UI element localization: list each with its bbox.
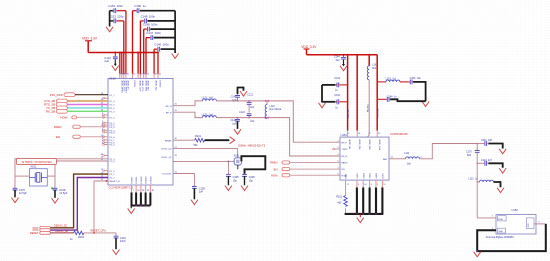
svg-text:Non Monta: Non Monta xyxy=(269,108,281,111)
ground (U100 DGND) xyxy=(130,206,132,209)
svg-text:C112 1p8: C112 1p8 xyxy=(481,139,493,142)
junction dot green xyxy=(51,187,53,189)
capacitor C149 100n xyxy=(140,20,144,22)
svg-text:P1_3: P1_3 xyxy=(110,111,116,113)
wire RESET_N vertical xyxy=(94,181,108,233)
junction dots U151 ground bus xyxy=(356,213,358,215)
svg-text:DGND3: DGND3 xyxy=(146,176,148,184)
ground (C143) xyxy=(112,66,119,71)
svg-text:RF_N: RF_N xyxy=(342,156,348,158)
svg-text:C149 100n: C149 100n xyxy=(141,14,156,18)
junction dot RESET xyxy=(93,232,94,233)
ground (C112) xyxy=(499,149,506,154)
svg-text:48: 48 xyxy=(152,190,154,192)
wire black bus C161/C162 xyxy=(321,85,323,103)
wire L111 up to antenna row xyxy=(420,144,478,159)
svg-text:9n1: 9n1 xyxy=(372,67,377,70)
capacitor C140 1p8 xyxy=(237,100,238,101)
capacitor C170 6p8 series xyxy=(476,144,478,151)
ground (C113) xyxy=(499,168,506,173)
capacitor C105 xyxy=(227,161,229,174)
svg-text:2u2: 2u2 xyxy=(104,59,109,63)
capacitor C113 2p7 xyxy=(477,162,484,164)
wire PIO2 purple xyxy=(50,178,108,231)
svg-text:RESET: RESET xyxy=(30,231,39,235)
capacitor C110 10nF xyxy=(115,233,117,236)
antenna U152 Line pin box xyxy=(498,216,507,221)
capacitor C109 1uF xyxy=(194,186,195,187)
svg-text:15p: 15p xyxy=(233,179,238,182)
wire C140 ground loop xyxy=(238,88,244,95)
capacitor C164 1n xyxy=(377,98,386,100)
capacitor C143 2u2 xyxy=(114,53,116,58)
svg-text:GND2: GND2 xyxy=(363,172,365,178)
resistor R102 1k xyxy=(74,231,85,235)
IC U151 CC2591 body xyxy=(340,137,389,180)
wire DGND comb xyxy=(131,185,133,193)
junction dot antenna top corner xyxy=(477,143,478,144)
svg-text:10p: 10p xyxy=(250,120,255,123)
black polarity arrow C144 xyxy=(343,60,345,65)
svg-text:C151 100n: C151 100n xyxy=(108,4,123,8)
svg-text:C107: C107 xyxy=(19,188,26,192)
capacitor C150 1u xyxy=(133,10,138,12)
svg-text:R102: R102 xyxy=(78,236,85,239)
svg-text:DGND4: DGND4 xyxy=(151,176,153,184)
svg-text:GND4: GND4 xyxy=(376,172,378,178)
svg-text:AVDD_PA1: AVDD_PA1 xyxy=(358,140,361,151)
inductor L111 1n6 xyxy=(406,157,420,159)
ground (C140) xyxy=(240,91,247,96)
wire RESET_CPU xyxy=(84,232,116,234)
wire AVDD vertical 1 xyxy=(119,53,121,74)
junction dot C164 branch xyxy=(377,99,378,100)
wire AVDD vertical 7 xyxy=(139,21,141,74)
wire PAEN xyxy=(290,162,340,164)
svg-text:CC2591RGVR: CC2591RGVR xyxy=(390,132,408,136)
wire RESET xyxy=(50,232,73,234)
wire crystal ground loop black xyxy=(241,156,265,174)
svg-text:C147 100n: C147 100n xyxy=(146,31,161,35)
svg-text:DCOUPL: DCOUPL xyxy=(162,174,172,176)
svg-text:10p: 10p xyxy=(250,106,255,109)
svg-text:DEBUG_DC: DEBUG_DC xyxy=(54,224,68,227)
wire AVDD vertical 3 xyxy=(123,21,125,74)
wire RF_P rail cont xyxy=(216,118,340,156)
svg-text:DGND2: DGND2 xyxy=(141,176,143,184)
svg-text:XOSC_Q1: XOSC_Q1 xyxy=(161,157,172,159)
svg-text:L111: L111 xyxy=(404,152,410,155)
capacitor C161 1n xyxy=(347,101,348,102)
svg-text:R151: R151 xyxy=(336,195,342,198)
svg-text:10nF: 10nF xyxy=(120,239,126,243)
svg-text:P2_0: P2_0 xyxy=(110,145,116,147)
wire AVDD_SW vertical xyxy=(347,55,349,131)
capacitor C106 xyxy=(242,175,247,177)
svg-text:AVDD_VCO: AVDD_VCO xyxy=(141,81,144,92)
wire TX_2B cyan xyxy=(67,107,108,109)
svg-text:PAEN: PAEN xyxy=(54,125,62,129)
wire VDD riser 2 xyxy=(306,49,308,55)
resistor R151 4k3 xyxy=(345,180,347,195)
svg-text:C108: C108 xyxy=(59,188,66,192)
wire DCOUPL xyxy=(173,174,194,187)
junction dots antenna node xyxy=(477,163,478,164)
wire antenna node to Line pin xyxy=(477,217,496,219)
wire U152 ground loop xyxy=(477,224,546,251)
svg-text:P1_0: P1_0 xyxy=(110,118,116,120)
svg-text:AVDD_SW: AVDD_SW xyxy=(155,81,158,91)
wire XOSC32 upper xyxy=(15,159,108,176)
capacitor C122 10p xyxy=(247,114,252,116)
ground (C105) xyxy=(225,186,232,191)
svg-text:AVDD_LNA: AVDD_LNA xyxy=(378,140,381,151)
antenna U152 GND pin box right xyxy=(527,218,535,229)
svg-text:6p8: 6p8 xyxy=(467,154,472,157)
svg-text:C110: C110 xyxy=(120,236,127,240)
wire AVDD vertical 8 xyxy=(143,29,145,74)
wire RBIAS xyxy=(173,139,195,141)
svg-text:28: 28 xyxy=(142,190,144,192)
svg-text:EN: EN xyxy=(274,167,278,171)
ground (C110) xyxy=(113,250,120,255)
svg-text:RBIAS: RBIAS xyxy=(165,139,172,142)
ground (C161/C162) xyxy=(319,103,326,108)
svg-text:P1_4: P1_4 xyxy=(110,101,116,103)
antenna U152 GND pin box left xyxy=(498,228,506,233)
inductor L131 1n6 xyxy=(202,99,216,101)
wire RF_N rail xyxy=(173,101,202,106)
ground (C108) xyxy=(52,198,59,203)
svg-text:12.5pF: 12.5pF xyxy=(19,191,27,195)
capacitor C163 10p xyxy=(400,81,410,83)
svg-text:P1_2: P1_2 xyxy=(110,171,116,173)
wire crystal left lead xyxy=(15,175,29,177)
svg-text:P1_6: P1_6 xyxy=(110,108,116,110)
svg-text:L132 1n6: L132 1n6 xyxy=(202,113,214,116)
ground (C163) xyxy=(422,102,429,107)
svg-text:VDD_3.3V: VDD_3.3V xyxy=(82,37,98,41)
svg-text:RESET_CPU: RESET_CPU xyxy=(91,229,107,233)
svg-text:X151: X151 xyxy=(234,154,240,157)
svg-text:EN: EN xyxy=(342,169,345,171)
svg-text:AVDD_IF1: AVDD_IF1 xyxy=(127,81,130,91)
junction dots on VDD rail xyxy=(119,52,121,54)
capacitor C107 12.5pF xyxy=(14,176,16,188)
wire EN left xyxy=(80,136,108,138)
svg-text:P0_6: P0_6 xyxy=(110,137,116,139)
svg-text:C148 100n: C148 100n xyxy=(143,23,158,27)
svg-text:C146 100n: C146 100n xyxy=(154,43,169,47)
svg-text:U100: U100 xyxy=(109,76,116,80)
wire XOSC_Q1 xyxy=(173,160,234,162)
wire AVDD vertical 6 xyxy=(137,53,139,74)
inductor L122 non mount xyxy=(265,100,269,118)
svg-text:C164 1n: C164 1n xyxy=(387,96,397,99)
svg-text:C109: C109 xyxy=(199,186,206,190)
wire black bus right of cap bank xyxy=(174,11,176,53)
svg-text:12.5pF: 12.5pF xyxy=(59,191,67,195)
capacitor C112 1p8 xyxy=(477,143,484,145)
wire XOSC32 lower xyxy=(55,161,108,176)
capacitor C121 10p xyxy=(248,100,249,101)
svg-text:38: 38 xyxy=(147,190,149,192)
wire HOW xyxy=(77,116,108,118)
wire crystal bottom lead xyxy=(237,165,239,169)
svg-text:P0_5: P0_5 xyxy=(110,132,116,134)
wire RX_2B green xyxy=(67,110,108,112)
capacitor C151 100n xyxy=(110,10,114,12)
svg-text:GND: GND xyxy=(498,231,503,233)
wire AVDD vertical 5 xyxy=(132,11,134,74)
svg-text:GND3: GND3 xyxy=(370,172,372,178)
wire AVDD vertical 2 xyxy=(121,53,123,74)
capacitor C148 100n xyxy=(144,28,148,30)
wire EN xyxy=(290,168,340,170)
capacitor C142 1p8 xyxy=(237,117,238,118)
svg-text:C162: C162 xyxy=(334,77,340,80)
svg-text:AVDD_PA2: AVDD_PA2 xyxy=(368,140,371,151)
svg-text:P0_3: P0_3 xyxy=(110,127,116,129)
svg-text:4k3: 4k3 xyxy=(338,201,343,204)
svg-text:ANT: ANT xyxy=(383,158,388,161)
svg-text:32.768kHz / TFX02P2047RM: 32.768kHz / TFX02P2047RM xyxy=(22,162,52,164)
wire RTS_2B magenta xyxy=(67,104,108,106)
svg-text:HOW: HOW xyxy=(60,116,67,120)
inductor L161 1n1 xyxy=(386,80,400,82)
svg-text:P2_1: P2_1 xyxy=(110,174,116,176)
svg-text:7: 7 xyxy=(133,190,134,192)
wire RF_P rail xyxy=(173,112,202,117)
svg-text:U151: U151 xyxy=(341,133,348,137)
svg-text:C163 10p: C163 10p xyxy=(410,77,422,80)
svg-text:AVDD_RF1: AVDD_RF1 xyxy=(147,81,150,92)
svg-text:RESET_N: RESET_N xyxy=(110,181,121,183)
svg-text:DVDD3: DVDD3 xyxy=(132,176,134,184)
wire PAEN left xyxy=(80,126,108,128)
wire XOSC_Q2 xyxy=(173,149,238,158)
wire C163 to ground xyxy=(413,82,426,101)
svg-text:R101: R101 xyxy=(195,135,202,138)
svg-text:C122: C122 xyxy=(239,111,245,114)
ground (RBIAS, pointing right) xyxy=(230,137,235,144)
wire HGM xyxy=(290,174,340,176)
svg-text:U152: U152 xyxy=(512,208,519,212)
svg-text:DGND1: DGND1 xyxy=(136,176,138,184)
svg-text:L112 1n: L112 1n xyxy=(469,178,479,181)
wire to L161 xyxy=(377,81,386,83)
wire CTS_2B orange xyxy=(67,100,108,102)
wire PA_REG vertical xyxy=(367,80,369,137)
ground (C106) xyxy=(241,186,248,191)
resistor R101 56k xyxy=(195,138,205,142)
wire GND comb U151 xyxy=(356,180,358,187)
svg-text:2u2: 2u2 xyxy=(336,59,341,62)
svg-text:DCPL: DCPL xyxy=(383,172,385,178)
svg-text:AVDD_SW: AVDD_SW xyxy=(348,140,351,150)
svg-text:1uF: 1uF xyxy=(199,190,204,194)
svg-text:20: 20 xyxy=(137,190,139,192)
svg-text:Antenna Zigbee W3008C: Antenna Zigbee W3008C xyxy=(486,236,514,239)
wire PIO1 brown xyxy=(50,174,108,228)
junction dot XOSC_Q1 xyxy=(228,161,229,162)
wire AVDD vertical 11 xyxy=(157,53,159,74)
wire C164 to ground xyxy=(390,99,426,101)
svg-text:HGM: HGM xyxy=(271,174,278,178)
svg-text:P2_4: P2_4 xyxy=(110,161,116,163)
junction dots DGND bus xyxy=(135,205,137,207)
svg-text:EN: EN xyxy=(56,135,60,139)
wire RF_N rail cont xyxy=(216,101,340,142)
capacitor C153 220p xyxy=(110,20,114,22)
svg-text:1p8: 1p8 xyxy=(232,122,237,125)
svg-text:C161: C161 xyxy=(334,94,340,97)
junction dots on VDD rail 2 xyxy=(343,54,345,56)
ground (U151) xyxy=(359,214,361,217)
wire black bus left of C151/C153 xyxy=(109,11,111,27)
svg-text:VDD_3.3V: VDD_3.3V xyxy=(301,45,317,49)
IC U100 CC2430 body xyxy=(108,79,173,186)
svg-text:RF_N: RF_N xyxy=(166,106,172,108)
wire PIO_DSP xyxy=(75,94,108,96)
svg-text:P1_7: P1_7 xyxy=(110,95,116,97)
svg-text:BIAS: BIAS xyxy=(345,173,348,178)
junction dot L161 branch xyxy=(377,81,378,82)
svg-text:C121: C121 xyxy=(247,93,253,96)
wire L112 to ground xyxy=(494,182,501,187)
capacitor C146 100n xyxy=(154,48,158,50)
svg-text:C150 1u: C150 1u xyxy=(134,4,146,8)
junction dot U152 ground xyxy=(476,250,478,252)
wire AVDD_PA1 vertical xyxy=(356,55,358,131)
wire VDD_3.3V rail 2 xyxy=(307,54,378,56)
inductor L112 1n xyxy=(477,181,479,183)
crystal X101 xyxy=(29,169,47,186)
ground (C107) xyxy=(12,198,19,203)
svg-text:DVDD1: DVDD1 xyxy=(133,81,135,89)
svg-text:TXRX: TXRX xyxy=(342,149,348,151)
wire AVDD_LNA vertical xyxy=(376,55,378,131)
svg-text:XOSC_Q2: XOSC_Q2 xyxy=(161,149,172,151)
wire AVDD vertical 9 xyxy=(145,38,147,74)
svg-text:C113 2p7: C113 2p7 xyxy=(481,159,493,162)
svg-text:PAEN: PAEN xyxy=(270,161,277,165)
IC U151 unconnected pin stub xyxy=(335,148,341,150)
capacitor C147 100n xyxy=(146,37,151,39)
capacitor C108 12.5pF xyxy=(54,176,56,188)
capacitor C144 2u2 xyxy=(343,55,345,58)
svg-text:P1_5: P1_5 xyxy=(110,105,116,107)
inductor L132 1n6 xyxy=(202,116,216,118)
antenna U152 body xyxy=(496,215,536,235)
IC U100 left unconnected pin stubs xyxy=(105,97,109,99)
wire ANT to L111 xyxy=(396,158,406,160)
capacitor C162 1n xyxy=(347,84,348,85)
svg-text:RF_P: RF_P xyxy=(166,112,172,114)
svg-text:DVDD2: DVDD2 xyxy=(159,81,161,89)
ground (C109) xyxy=(191,200,198,205)
ground (cap bank left) xyxy=(106,27,113,32)
svg-text:PIO_DSP: PIO_DSP xyxy=(50,93,63,97)
wire AVDD vertical 4 xyxy=(125,11,127,74)
svg-text:GND1: GND1 xyxy=(357,172,359,178)
svg-text:1n6: 1n6 xyxy=(407,163,412,166)
wire AVDD_PA2 vertical with L162 xyxy=(368,55,370,66)
inductor L162 9n1 xyxy=(367,66,369,80)
ground (C142) xyxy=(234,129,241,134)
wire RBIAS to ground xyxy=(205,139,230,141)
svg-text:GND: GND xyxy=(528,223,530,228)
svg-text:RF_P: RF_P xyxy=(342,142,348,144)
ground (C144) xyxy=(340,66,347,71)
wire VDD riser xyxy=(87,41,89,53)
svg-text:PAEN: PAEN xyxy=(342,162,348,165)
svg-text:P2_2: P2_2 xyxy=(110,178,116,180)
svg-text:32MHz - ABM12-B2x-T3: 32MHz - ABM12-B2x-T3 xyxy=(238,145,266,148)
svg-text:X101: X101 xyxy=(30,164,37,168)
wire VDD_3.3V rail xyxy=(88,52,158,54)
label box 32.768kHz xyxy=(17,158,57,164)
ground (L112) xyxy=(497,188,504,193)
wire GND2 pin xyxy=(534,223,546,225)
ground (U152) xyxy=(474,252,481,257)
wire AVDD vertical 10 xyxy=(153,49,155,74)
svg-text:VDD_SW: VDD_SW xyxy=(348,109,350,118)
svg-text:L131 1n6: L131 1n6 xyxy=(202,96,214,99)
svg-text:Line: Line xyxy=(498,219,503,221)
wire crystal right lead xyxy=(47,175,55,177)
svg-text:15p: 15p xyxy=(249,179,254,182)
black polarity arrow C143 xyxy=(114,60,116,65)
crystal X151 xyxy=(234,158,241,165)
svg-text:1p8: 1p8 xyxy=(232,99,237,102)
svg-text:PA_REG: PA_REG xyxy=(366,104,369,112)
svg-text:L161 1n1: L161 1n1 xyxy=(386,77,397,80)
ground (cap bank right) xyxy=(172,53,179,58)
svg-text:C153 220p: C153 220p xyxy=(109,14,124,18)
svg-text:RX_2B: RX_2B xyxy=(46,110,55,114)
svg-text:CC2430F128RTC/2: CC2430F128RTC/2 xyxy=(109,186,134,190)
